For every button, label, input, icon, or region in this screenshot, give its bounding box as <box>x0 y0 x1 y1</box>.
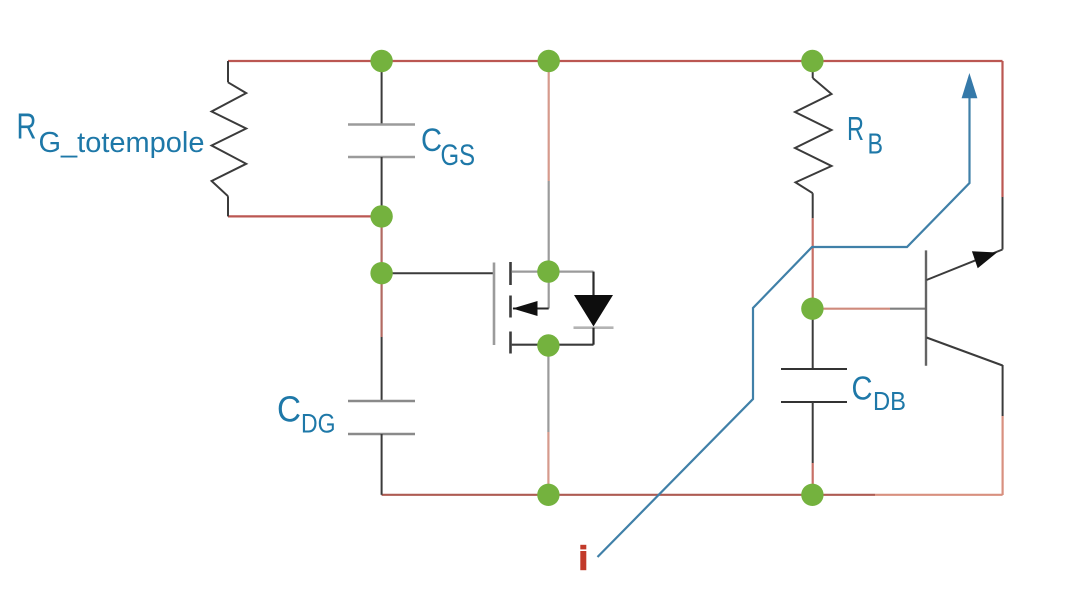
label i <box>580 545 586 550</box>
capacitor C_GS lead top <box>381 61 383 124</box>
transistor Q2 collector arrow head <box>972 251 997 268</box>
svg-text:R: R <box>847 110 864 147</box>
node R_G/C_GS bottom <box>370 205 392 227</box>
svg-text:C: C <box>277 389 301 430</box>
wire collector vertical (dark) <box>1002 197 1004 250</box>
wire bottom rail right (light salmon) <box>875 494 1003 496</box>
node bottom-right <box>801 484 823 506</box>
diode D1 anode lead <box>592 272 594 296</box>
capacitor C_DB plates <box>781 369 847 402</box>
node top-middle <box>538 50 560 72</box>
transistor Q1 MOSFET gate bar <box>493 263 496 346</box>
capacitor C_DB lead bottom (dark) <box>812 402 814 463</box>
transistor Q1 body arrow line <box>513 308 549 310</box>
node gate <box>370 262 392 284</box>
wire base horizontal (salmon) <box>813 308 890 310</box>
svg-text:G_totempole: G_totempole <box>39 127 205 159</box>
capacitor C_GS plates <box>348 125 415 158</box>
svg-text:DB: DB <box>873 386 906 416</box>
svg-text:B: B <box>868 129 884 161</box>
svg-text:C: C <box>852 370 873 407</box>
capacitor C_DB lead top <box>812 309 814 369</box>
resistor R_B zigzag <box>795 78 832 193</box>
node base <box>801 298 823 320</box>
wire right edge upper (red) <box>1001 61 1003 197</box>
transistor Q2 emitter diagonal <box>927 338 1003 366</box>
wire gate branch upper (salmon) <box>381 216 383 273</box>
wire right edge lower (light salmon) <box>1001 416 1003 495</box>
resistor R_G_totempole zigzag <box>212 82 247 196</box>
resistor R_B top stub <box>812 61 814 78</box>
wire emitter vertical (dark) <box>1002 365 1004 416</box>
node drain <box>537 260 559 282</box>
transistor Q1 drain horizontal (gray) <box>512 271 594 273</box>
resistor R_B bottom stub <box>812 193 814 218</box>
wire R_G bottom (red) <box>228 215 382 217</box>
diode D1 cathode bar <box>574 326 614 329</box>
svg-text:GS: GS <box>441 139 476 172</box>
transistor Q2 base bar <box>925 250 927 365</box>
node top-left <box>370 50 392 72</box>
svg-text:C: C <box>421 122 442 158</box>
node top-right <box>801 50 823 72</box>
capacitor C_DG lead bottom <box>381 434 383 495</box>
wire drain branch top (salmon) <box>548 61 550 181</box>
wire C_DB to bottom rail (salmon) <box>812 463 814 495</box>
wire base horizontal (gray) <box>890 308 927 310</box>
wire gate horizontal (dark) <box>382 272 495 274</box>
wire source branch upper (gray) <box>547 346 549 432</box>
resistor R_G_totempole top stub <box>227 61 229 82</box>
wire drain branch lower (gray) <box>548 181 550 272</box>
diode D1 cathode lead <box>592 328 594 345</box>
capacitor C_DG plates <box>348 401 415 434</box>
svg-text:R: R <box>17 106 37 147</box>
resistor R_G_totempole bottom stub <box>227 196 229 216</box>
transistor Q1 MOSFET channel dashes <box>509 262 512 354</box>
current path i (blue polyline) <box>598 95 970 557</box>
node source <box>537 334 559 356</box>
current path i arrow head <box>962 73 978 98</box>
wire bottom rail left (dark red) <box>382 494 875 496</box>
transistor Q1 body tap vertical (gray) <box>548 272 550 309</box>
wire gate branch lower (dark) <box>381 337 383 401</box>
wire R_B to base node (salmon) <box>812 218 814 308</box>
transistor Q1 source horizontal (dark) <box>512 344 594 346</box>
diode D1 triangle <box>574 295 613 327</box>
node bottom-middle <box>537 484 559 506</box>
transistor Q1 body arrow head <box>513 301 538 316</box>
capacitor C_GS lead bottom <box>381 157 383 216</box>
wire top rail (red) <box>228 60 1003 62</box>
svg-text:DG: DG <box>301 409 336 439</box>
wire gate branch mid (salmon) <box>381 273 383 337</box>
transistor Q2 collector diagonal <box>927 250 1003 281</box>
wire source branch lower (salmon) <box>547 432 549 495</box>
